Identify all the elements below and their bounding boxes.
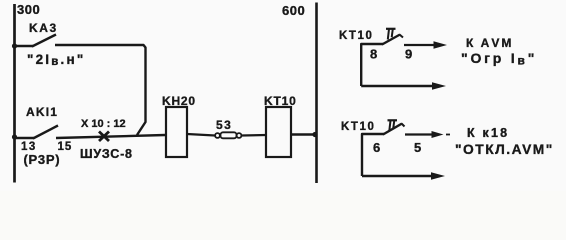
wire arrow lower branch of upper contact <box>361 82 446 89</box>
bus 300 (left vertical bus) <box>13 4 16 183</box>
svg-text:600: 600 <box>282 3 305 18</box>
contact AKI1 <box>14 126 58 139</box>
wire arrow lower branch of lower contact <box>362 172 445 179</box>
coil KH20 <box>166 107 187 157</box>
svg-text:К к18: К к18 <box>467 126 509 140</box>
svg-text:X 10 : 12: X 10 : 12 <box>81 118 126 130</box>
svg-text:5: 5 <box>414 140 421 155</box>
wire AKI1 to coil KH20 <box>56 135 165 138</box>
wire KA3 rung to vertical link <box>55 45 146 135</box>
wire arrow lower-right (to K18) <box>405 131 450 138</box>
node junction at bus-AKI1 <box>12 134 17 139</box>
svg-text:53: 53 <box>216 118 232 132</box>
contact KA3 <box>14 35 56 47</box>
node junction at bus 600 <box>312 132 317 137</box>
svg-text:AKI1: AKI1 <box>26 105 58 119</box>
contact KT10 lower (time-delay) <box>362 120 405 176</box>
wire resistor to coil KT10 <box>242 134 267 137</box>
coil KT10 <box>266 107 291 157</box>
svg-text:К АVМ: К АVМ <box>466 36 513 50</box>
svg-text:KH20: KH20 <box>162 94 196 108</box>
svg-text:KT10: KT10 <box>264 94 297 108</box>
svg-text:ШУЗС-8: ШУЗС-8 <box>80 147 133 161</box>
svg-text:6: 6 <box>373 140 380 155</box>
node junction at bus-KA3 <box>12 43 17 48</box>
svg-text:(Р3Р): (Р3Р) <box>24 152 61 167</box>
svg-text:"Огр Iв": "Огр Iв" <box>461 50 537 68</box>
wire KH20 to resistor 53 <box>187 134 215 136</box>
svg-text:300: 300 <box>17 2 40 17</box>
svg-text:9: 9 <box>405 47 412 62</box>
contact KT10 upper (time-delay) <box>361 29 403 86</box>
wire arrow upper-right (to AVM) <box>404 41 447 48</box>
terminal X10:12 <box>99 132 109 142</box>
wire KT10 to bus 600 <box>291 133 317 135</box>
resistor 53 (fuse symbol) <box>215 132 241 138</box>
bus 600 (right vertical bus) <box>315 3 318 184</box>
svg-text:KT10: KT10 <box>339 30 374 42</box>
svg-text:KT10: KT10 <box>341 121 376 133</box>
svg-text:KA3: KA3 <box>29 21 58 35</box>
svg-text:8: 8 <box>370 47 377 62</box>
svg-text:"ОТКЛ.AVM": "ОТКЛ.AVM" <box>455 142 554 157</box>
